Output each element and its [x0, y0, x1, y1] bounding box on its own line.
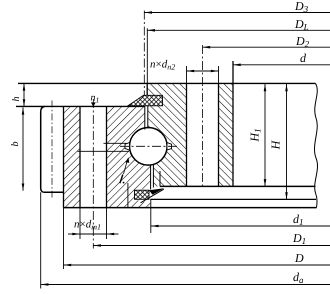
inner ring face above seal — [146, 83, 148, 95]
ball — [130, 128, 168, 166]
tooth tip edge — [40, 112, 42, 189]
dimension d — [233, 64, 330, 66]
bolt hole centerline (D1) — [92, 99, 94, 249]
inner ring bore d — [232, 61, 234, 186]
bore step line — [127, 183, 129, 208]
seal lower (cross-hatched) — [135, 190, 150, 199]
dimension H1 — [264, 84, 266, 186]
svg-text:d: d — [300, 51, 307, 65]
white: seal notch top — [147, 95, 163, 106]
inner ring lower bore — [159, 171, 161, 186]
inner ring top face — [18, 82, 316, 84]
seal groove chamfer line — [141, 189, 164, 203]
bolt hole n x dm1 left edge — [79, 106, 81, 207]
seal lower lip wedge — [149, 188, 164, 195]
lower slot edges — [150, 164, 152, 189]
dimension D1 — [93, 245, 330, 247]
white: lower seal groove zone — [134, 186, 167, 207]
ball center line — [120, 145, 177, 147]
upper slot edges — [144, 106, 146, 130]
plug pin line upper — [104, 142, 127, 144]
svg-text:H: H — [269, 139, 283, 150]
dimension D — [63, 208, 65, 269]
dimension da — [40, 192, 42, 288]
dimension D2 — [203, 46, 330, 48]
support top line — [150, 198, 316, 200]
dimension D3 — [144, 12, 330, 14]
dimension DL — [146, 28, 148, 83]
inner ring bottom face — [160, 185, 316, 187]
svg-text:b: b — [10, 142, 21, 147]
outer ring top face — [16, 105, 145, 107]
seal upper (cross-hatched) — [128, 95, 163, 106]
label l with leader — [120, 175, 123, 184]
bolt hole n x dm1 right edge — [106, 106, 108, 207]
inner ring section hatch right of bolt hole — [219, 83, 234, 186]
wavy break line — [315, 83, 318, 207]
bolt hole centerline (D2) — [202, 45, 204, 189]
white: upper slot between rings — [145, 105, 148, 130]
dimension H — [286, 84, 288, 199]
outer ring (left, geared) section hatch left of bolt hole — [64, 106, 81, 207]
tooth bottom face — [44, 191, 64, 193]
svg-text:h: h — [11, 97, 22, 102]
raceway reference centerline D3 — [143, 11, 145, 96]
gear pitch line — [51, 101, 53, 198]
bolt hole n x dn2 left edge — [186, 83, 188, 186]
raceway cusp left — [125, 143, 130, 150]
bolt hole n x dn2 right edge — [218, 83, 220, 186]
plug joint line lower — [78, 150, 130, 152]
dimension h — [23, 83, 25, 106]
tooth top chamfer — [41, 107, 45, 112]
tooth bottom chamfer — [41, 189, 44, 193]
dimension b — [22, 107, 24, 190]
svg-text:D: D — [294, 251, 304, 265]
dimension d1 — [150, 199, 152, 233]
outer ring section hatch right of bolt hole — [107, 106, 151, 207]
inner ring (right) section hatch left of bolt hole — [147, 83, 186, 186]
ring body outer edge / tooth root — [63, 106, 65, 207]
outer ring bottom face — [64, 207, 317, 209]
white: lower slot between rings — [151, 163, 153, 188]
raceway cusp right — [167, 143, 172, 150]
